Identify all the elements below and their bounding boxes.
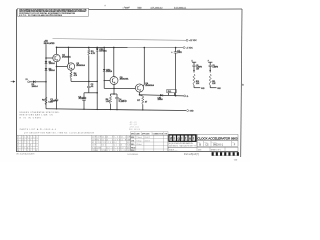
svg-text:EQUIPMENT: EQUIPMENT — [169, 143, 181, 145]
svg-text:R4 7: R4 7 — [97, 139, 101, 141]
delay line DL1 — [167, 89, 176, 95]
svg-text:3.2MFD: 3.2MFD — [196, 67, 203, 69]
svg-text:D2 1: D2 1 — [102, 145, 106, 147]
svg-text:Q1 2: Q1 2 — [102, 139, 106, 141]
svg-text:C: C — [16, 145, 17, 147]
svg-text:-R9 -C9: -R9 -C9 — [129, 122, 137, 124]
node handwritten note — [184, 153, 199, 156]
svg-text:W.Hind: W.Hind — [136, 144, 141, 146]
svg-text:3-04: 3-04 — [114, 137, 120, 139]
svg-text:1298: 1298 — [107, 142, 113, 144]
svg-text:3-04: 3-04 — [92, 147, 96, 149]
svg-text:C1 R: C1 R — [97, 137, 101, 139]
diode D2 — [45, 68, 56, 72]
svg-text:2N3638A: 2N3638A — [145, 84, 154, 87]
wire +12V rail — [53, 39, 187, 41]
diode CR2 — [103, 47, 113, 73]
svg-text:C1 R: C1 R — [102, 142, 106, 144]
svg-text:1N748A: 1N748A — [99, 50, 107, 53]
diode CR3 — [158, 94, 163, 101]
svg-text:3-04: 3-04 — [121, 150, 127, 152]
transistor Q1 — [53, 54, 71, 61]
svg-text:Q1 2: Q1 2 — [127, 150, 130, 152]
svg-text:R11: R11 — [212, 81, 215, 83]
svg-text:2N3638A: 2N3638A — [120, 78, 129, 81]
svg-text:C: C — [18, 147, 19, 149]
zener CR1 — [96, 47, 107, 52]
svg-text:D2 1: D2 1 — [107, 147, 113, 149]
node left border zone arrow — [11, 80, 16, 82]
svg-text:D2 1: D2 1 — [92, 142, 96, 144]
svg-text:3-04: 3-04 — [114, 150, 120, 152]
svg-text:5410: 5410 — [138, 6, 142, 9]
svg-text:REF DESIG: REF DESIG — [129, 129, 141, 131]
node microfilm density strip — [212, 152, 239, 156]
svg-text:l: l — [193, 137, 194, 141]
svg-text:A-PL-9903-0-0: A-PL-9903-0-0 — [151, 7, 163, 10]
svg-text:CLOCK ACCELERATOR 9903: CLOCK ACCELERATOR 9903 — [197, 136, 237, 140]
svg-text:C: C — [18, 139, 19, 141]
node +5 VDC terminal — [183, 47, 193, 50]
node equipment corporation text — [169, 142, 196, 148]
capacitor C4 — [115, 94, 127, 110]
svg-text:2N3638A: 2N3638A — [76, 64, 85, 67]
node scale sheet row — [168, 147, 238, 151]
svg-text:Q1 2: Q1 2 — [107, 150, 113, 152]
node drawing id text — [128, 154, 139, 156]
svg-text:▲: ▲ — [104, 4, 106, 7]
wire C1 to ground rail — [56, 100, 58, 109]
svg-text:Q1 2: Q1 2 — [102, 137, 106, 139]
node dec form text — [16, 153, 34, 156]
svg-text:D2 1: D2 1 — [127, 142, 130, 144]
svg-text:DRN: DRN — [131, 137, 134, 139]
svg-text:1298: 1298 — [127, 139, 130, 141]
svg-text:R4 7: R4 7 — [114, 142, 120, 144]
capacitor C9 / resistor R11 branch — [208, 61, 222, 90]
svg-text:C1 R: C1 R — [92, 145, 96, 147]
transistor Q2 — [67, 63, 85, 70]
svg-text:REGULATED: REGULATED — [44, 42, 55, 45]
svg-text:3-04: 3-04 — [114, 147, 120, 149]
svg-text:C: C — [36, 142, 37, 144]
wire Q1 base from node V1 — [46, 57, 53, 59]
capacitor C5 — [171, 48, 182, 96]
svg-text:Q1 2: Q1 2 — [121, 137, 127, 139]
diode D1 — [45, 61, 56, 65]
svg-text:C1 R: C1 R — [97, 142, 101, 144]
wire CR1 to node C to ground — [96, 51, 98, 110]
transistor Q4 — [135, 82, 154, 92]
svg-text:CS: CS — [205, 144, 209, 147]
wire sheet border frame — [16, 9, 242, 157]
wire Q2 emitter to node B — [71, 78, 98, 82]
node CLOCK OUT terminal — [184, 95, 189, 98]
capacitor C3 — [78, 93, 86, 109]
svg-text:4.7K: 4.7K — [91, 52, 96, 55]
wire Q1 emitter to Q2 base — [57, 65, 68, 67]
wire diode D3 to node V1 — [36, 81, 46, 83]
svg-text:-D3 -Q4: -D3 -Q4 — [129, 124, 137, 126]
wire node D to Q4 base — [104, 87, 135, 89]
svg-text:R.Gray: R.Gray — [136, 140, 141, 142]
svg-text:D-CS-9903-0-1: D-CS-9903-0-1 — [174, 8, 186, 10]
wire Q2 collector to +5V rail — [68, 47, 70, 63]
wire input lead — [30, 81, 33, 83]
node parts list header text — [24, 132, 95, 135]
node notice box — [18, 8, 89, 17]
node size code number row — [197, 141, 238, 147]
svg-text:+5 VDC: +5 VDC — [186, 48, 193, 50]
resistor R3 — [88, 47, 96, 55]
svg-text:1.5K: 1.5K — [106, 101, 111, 103]
svg-text:UNLESS OTHERWISE SPECIFIED:: UNLESS OTHERWISE SPECIFIED: — [20, 112, 61, 114]
svg-text:Q1 2: Q1 2 — [114, 145, 120, 147]
resistor R4 — [70, 70, 78, 78]
svg-text:.01MFD: .01MFD — [78, 98, 86, 100]
svg-text:B: B — [199, 143, 201, 147]
svg-text:10-6-71: 10-6-71 — [145, 140, 151, 142]
wire Q1 emitter down — [56, 62, 58, 99]
svg-text:ISSU: ISSU — [131, 150, 135, 152]
svg-text:SHEET 1 OF 1: SHEET 1 OF 1 — [211, 149, 221, 151]
wire Q3 collector to +5V rail — [113, 47, 115, 76]
svg-text:C9: C9 — [212, 65, 214, 67]
node GND terminal — [187, 110, 195, 113]
svg-text:1N914: 1N914 — [32, 85, 39, 88]
resistor R2 — [42, 97, 53, 105]
node approvals grid — [131, 135, 169, 152]
wire +5V rail — [57, 46, 184, 48]
svg-text:find softlysh(?): find softlysh(?) — [184, 153, 199, 156]
svg-text:DIST.: DIST. — [198, 149, 202, 151]
resistor R7 — [137, 95, 148, 110]
svg-text:D2 1: D2 1 — [121, 147, 127, 149]
svg-text:·156·: ·156· — [234, 159, 239, 161]
svg-text:C1 R: C1 R — [121, 139, 127, 141]
svg-text:1N914: 1N914 — [49, 62, 56, 65]
node +5V REGULATED label — [44, 41, 55, 45]
wire C2 to node C — [84, 88, 98, 94]
wire ground rail — [46, 108, 186, 110]
junction dots on +5V rail — [56, 47, 177, 49]
wire Q3 emitter node D — [111, 85, 118, 95]
svg-text:2N3638A: 2N3638A — [62, 55, 71, 58]
svg-text:RESISTORS ARE 1/4W; 5%: RESISTORS ARE 1/4W; 5% — [20, 114, 53, 117]
resistor R6 — [106, 94, 112, 110]
wire +5V regulated feed (node V1) — [45, 44, 47, 109]
node reference designation list — [129, 122, 141, 131]
wire output line node E to terminal — [140, 95, 184, 97]
svg-text:C: C — [33, 137, 34, 139]
svg-text:NOTE:: NOTE: — [19, 15, 27, 17]
svg-text:9903-0-1: 9903-0-1 — [213, 144, 224, 147]
svg-text:1298: 1298 — [97, 147, 101, 149]
node parts list reference text — [20, 128, 56, 131]
svg-text:0.1MFD: 0.1MFD — [119, 101, 127, 103]
svg-text:-CR3 -DL1: -CR3 -DL1 — [129, 127, 139, 129]
svg-text:C1 R: C1 R — [92, 137, 96, 139]
svg-text:i: i — [181, 137, 182, 141]
svg-text:+12 VDC: +12 VDC — [189, 40, 197, 42]
svg-text:3-04: 3-04 — [127, 145, 130, 147]
svg-text:3.2MFD: 3.2MFD — [212, 67, 219, 69]
transistor Q3 — [110, 77, 129, 85]
capacitor C1 — [50, 99, 58, 103]
wire Q1 collector to +5V rail — [56, 47, 58, 54]
svg-text:1298: 1298 — [102, 150, 106, 152]
node +12 VDC terminal — [186, 39, 197, 42]
wire R3 to node B — [88, 56, 90, 82]
node spec notes text — [20, 112, 61, 119]
svg-text:R10: R10 — [196, 81, 199, 83]
svg-text:1298: 1298 — [114, 139, 120, 141]
svg-text:1298: 1298 — [92, 150, 96, 152]
node title block header strip — [131, 132, 169, 136]
node zone letter B right border — [242, 84, 244, 86]
svg-text:GND: GND — [190, 111, 195, 113]
svg-text:1N914: 1N914 — [49, 69, 56, 72]
node digital logo — [168, 134, 197, 147]
capacitor C8 / resistor R10 branch — [192, 61, 206, 90]
svg-text:D1 THRU D3 ARE SILICON DIODES: D1 THRU D3 ARE SILICON DIODES — [28, 14, 63, 17]
capacitor C2 — [87, 81, 94, 88]
node page number text — [234, 159, 239, 161]
svg-text:D-CS-9903-0-1: D-CS-9903-0-1 — [128, 154, 139, 156]
svg-text:C8: C8 — [196, 65, 198, 67]
diode D3 — [32, 81, 39, 88]
svg-text:PARTS LIST A-PL-9903-0-0: PARTS LIST A-PL-9903-0-0 — [20, 128, 56, 131]
wire CR2 to Q3 base — [104, 71, 111, 88]
svg-text:i: i — [174, 137, 175, 141]
wire Q4 emitter to node E — [139, 92, 141, 96]
node title text CLOCK ACCELERATOR 9903 — [197, 134, 238, 140]
node top edge film marks — [104, 4, 186, 9]
svg-text:1UFD: 1UFD — [177, 52, 182, 54]
svg-text:D2 1: D2 1 — [127, 147, 130, 149]
svg-text:d: d — [170, 137, 172, 141]
svg-text:1N914: 1N914 — [106, 70, 113, 73]
svg-text:C1 R: C1 R — [92, 139, 96, 141]
svg-text:g: g — [178, 137, 180, 141]
wire Q4 collector to +5V rail — [143, 48, 145, 87]
svg-text:C1 R: C1 R — [127, 137, 130, 139]
node input terminal J1 — [26, 79, 30, 83]
svg-text:R IS IN OHMS: R IS IN OHMS — [20, 117, 42, 119]
svg-text:● ┗300┛: ● ┗300┛ — [123, 7, 130, 10]
svg-text:1N914: 1N914 — [158, 98, 163, 101]
node parts list table — [16, 135, 131, 152]
